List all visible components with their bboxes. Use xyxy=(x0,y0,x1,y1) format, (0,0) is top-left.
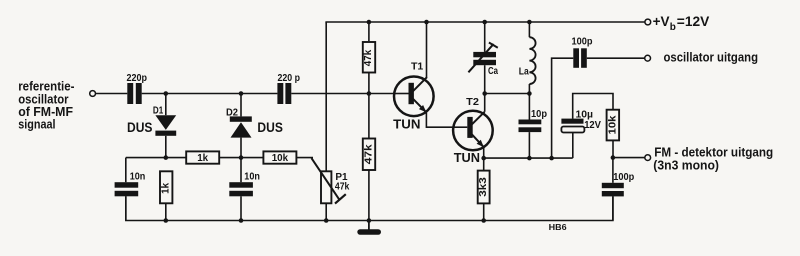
resistor 3k3 xyxy=(478,158,490,220)
wire C2 to T1 base xyxy=(291,93,394,95)
mid bias line left segment xyxy=(126,157,186,159)
electrolytic capacitor 10u 12V xyxy=(561,94,613,159)
capacitor C 220p (first) xyxy=(127,83,141,104)
svg-text:10p: 10p xyxy=(531,109,547,120)
wire 47k upper to signal line xyxy=(368,73,370,139)
wire C1 to C2 (signal line) xyxy=(142,93,278,95)
junction collector line / La-10p xyxy=(527,91,532,96)
svg-text:220 p: 220 p xyxy=(278,73,301,84)
svg-text:DUS: DUS xyxy=(257,120,283,135)
capacitor 10n (left) xyxy=(115,158,139,221)
svg-text:La: La xyxy=(519,67,529,78)
svg-text:1k: 1k xyxy=(160,182,171,193)
junction 1k vertical / mid line xyxy=(164,155,169,160)
wire 1k to D2 node xyxy=(219,157,263,159)
transistor T1 xyxy=(394,22,434,116)
junction emitter line / 10p xyxy=(527,156,532,161)
terminal +Vb xyxy=(645,19,651,25)
resistor 47k (lower) xyxy=(363,139,375,171)
resistor 10k (horizontal) xyxy=(263,151,296,163)
wire T1 emitter to T2 base xyxy=(426,112,453,127)
svg-text:TUN: TUN xyxy=(393,116,420,131)
svg-text:3k3: 3k3 xyxy=(478,177,489,197)
resistor 47k (upper) xyxy=(363,42,375,73)
variable capacitor Ca xyxy=(468,22,497,94)
inductor La xyxy=(529,22,535,94)
junction emitter / 3k3 xyxy=(481,156,486,161)
svg-text:Ca: Ca xyxy=(488,66,498,77)
svg-text:b: b xyxy=(670,22,676,33)
collector node line (Ca/La/10p) xyxy=(485,93,530,95)
svg-text:signaal: signaal xyxy=(18,118,55,132)
svg-text:=12V: =12V xyxy=(677,14,710,29)
svg-text:oscillator uitgang: oscillator uitgang xyxy=(664,51,759,65)
wire 47k lower to ground rail xyxy=(368,170,370,221)
P1 wiper arrow xyxy=(312,158,346,203)
junction rail / 47k xyxy=(367,20,372,25)
svg-text:10n: 10n xyxy=(130,172,146,183)
wire T2 emitter down xyxy=(483,147,485,158)
emitter node line xyxy=(484,157,573,159)
terminal oscillator uitgang xyxy=(645,55,651,61)
junction signal line / divider xyxy=(367,91,372,96)
FM output node xyxy=(613,157,645,159)
svg-text:D2: D2 xyxy=(226,108,238,119)
svg-text:47k: 47k xyxy=(363,49,374,66)
wire T2 collector up xyxy=(484,94,486,112)
diode D1 xyxy=(155,94,176,158)
svg-text:10µ: 10µ xyxy=(576,109,594,120)
capacitor 10n (right) xyxy=(229,158,253,221)
47k divider branch xyxy=(368,22,370,41)
svg-text:D1: D1 xyxy=(153,106,164,117)
junction rail / 3k3 xyxy=(481,218,486,223)
label input: referentie-oscillator of FM-MF signaal xyxy=(18,80,74,132)
svg-text:100p: 100p xyxy=(572,37,593,48)
svg-text:100p: 100p xyxy=(613,172,634,183)
wire 10k to P1 wiper xyxy=(296,157,313,159)
diode D2 xyxy=(230,94,252,158)
junction FM node xyxy=(611,155,616,160)
junction rail / 10n right xyxy=(239,218,244,223)
svg-text:10k: 10k xyxy=(272,153,289,164)
wire input to C1 xyxy=(96,93,128,95)
input terminal xyxy=(90,91,96,97)
svg-text:47k: 47k xyxy=(364,144,375,165)
ground symbol xyxy=(357,221,381,235)
junction collector / Ca xyxy=(482,91,487,96)
junction rail / T1 collector xyxy=(424,20,429,25)
resistor 1k (vertical) xyxy=(160,171,172,220)
svg-text:10n: 10n xyxy=(244,172,260,183)
svg-text:FM - detektor uitgang: FM - detektor uitgang xyxy=(654,146,773,160)
capacitor C 220p (second) xyxy=(277,83,291,104)
top rail +Vb xyxy=(326,22,645,24)
potentiometer P1 branch from top rail xyxy=(321,22,331,221)
junction rail / La xyxy=(527,20,532,25)
junction rail / P1 xyxy=(324,218,329,223)
capacitor 100p (oscillator output) xyxy=(552,48,645,158)
node D1 top junction xyxy=(164,91,169,96)
svg-text:1k: 1k xyxy=(197,153,208,164)
transistor T2 xyxy=(453,111,493,151)
label +Vb=12V xyxy=(653,14,710,33)
svg-text:47k: 47k xyxy=(335,181,350,192)
resistor 1k (horizontal) xyxy=(186,151,219,163)
svg-text:220p: 220p xyxy=(127,73,148,84)
svg-text:TUN: TUN xyxy=(454,150,480,165)
svg-text:DUS: DUS xyxy=(127,120,153,135)
svg-text:HB6: HB6 xyxy=(549,222,567,232)
junction rail / 1k vertical xyxy=(164,218,169,223)
terminal FM-detektor uitgang xyxy=(645,155,651,161)
svg-text:(3n3 mono): (3n3 mono) xyxy=(653,159,719,173)
capacitor 100p (FM output) xyxy=(602,158,624,221)
svg-text:+V: +V xyxy=(653,14,670,29)
bottom ground rail xyxy=(126,196,613,220)
svg-text:12V: 12V xyxy=(584,120,601,131)
resistor 10k (vertical) xyxy=(607,110,620,158)
junction rail / Ca xyxy=(482,20,487,25)
capacitor 10p xyxy=(519,94,542,159)
svg-text:10k: 10k xyxy=(607,115,618,135)
junction emitter line / 100p branch xyxy=(549,156,554,161)
node D2 top junction xyxy=(239,91,244,96)
svg-text:T1: T1 xyxy=(411,61,423,73)
junction rail / 47k-ground xyxy=(367,218,372,223)
junction D2 / mid line xyxy=(239,155,244,160)
svg-text:T2: T2 xyxy=(466,96,479,108)
